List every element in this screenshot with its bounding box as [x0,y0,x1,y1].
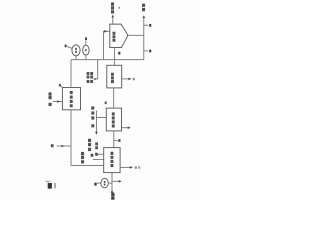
ejector E1 (left ellipse) [72,45,80,56]
wire: ejector E1 stem [75,56,77,60]
label: feed gas at bottom [111,193,114,196]
label: stream column lower-left of box3 [81,152,84,155]
numeral near left box corner [59,84,61,87]
numeral left of pump [94,183,96,186]
scrubber column box1 [107,65,122,88]
wire: vent line above flash drum [112,16,114,24]
wire: box1 right outlet [122,78,130,80]
wire: ejector E2 stem [85,55,87,60]
numeral near box2-box3 connector [118,139,120,142]
arrow: box2 outlet right [128,126,131,129]
glyph inside pump upper [104,181,106,183]
arrow: feed gas up [111,190,114,193]
absorber column box2 [106,108,121,131]
glyph inside ejector E2 [85,49,87,51]
pump P1 (circle at bottom) [101,178,108,187]
label: desorbed gas column B [90,72,93,75]
wire: flash drum bottom to scrubber top [114,48,116,66]
wire: purge arrow line at bottom right [112,180,120,182]
label: semi-lean stream beside box2 [91,106,94,109]
label: small char near middle stub [91,154,94,157]
numeral right of flash bottom line [118,52,120,55]
flash drum V1 (pentagon vessel) [110,24,128,47]
arrow: into flash left inlet [104,30,107,33]
caption: faint smear above 图1 [45,181,50,183]
wire: desorbed gas label line to header [94,60,98,80]
arrow: box3 outlet right [130,166,133,169]
label: product stream at riser top [142,4,145,7]
faint label after box3 arrow a [135,166,137,169]
label: small char near upper stub [95,153,98,156]
arrow: semi-lean down [95,132,98,135]
wire: pump discharge to feed line [108,182,112,184]
label: inside left regenerator box [70,91,73,94]
arrow: purge right bottom [119,180,122,183]
faint label after box3 arrow b [138,166,140,169]
wire: riser from left box to header [70,60,72,88]
wire: riser numeral tick upper [144,24,148,26]
glyph inside ejector E1 upper [75,48,77,50]
label: stream column upper near box3 [88,139,91,142]
wire: ejector E2 numeral lead [85,41,87,46]
caption: 图 character blob [48,183,52,189]
wire: box2 to box3 connector [113,131,115,148]
numeral above box2 [105,102,107,105]
arrow: box1 outlet right [128,78,131,81]
label: inside absorber box2 [112,112,115,115]
wire: flash drum right outlet to riser [128,34,144,36]
wire: left box numeral lead [61,86,63,88]
wire: box3 inlet stub upper [97,153,104,155]
label: lean liquid stream at left [49,92,52,95]
wire: ejector E1 numeral lead [67,47,72,49]
numeral right of riser lower [149,50,151,53]
wire: water makeup into downcomer [57,145,72,147]
label: inside absorber box3 [111,152,114,155]
numeral right of flash vent text [118,7,120,9]
wire: box3 inlet stub middle [93,158,104,160]
arrow: lean liquid into left box [57,100,60,103]
arrow: water makeup right [62,145,65,148]
label: gas stream above flash drum [111,2,114,5]
wire: feed gas line into box3 bottom [111,173,113,192]
label: inside scrubber box1 [111,73,114,76]
wire: left downcomer to bottom inlet of box3 [71,110,104,166]
wire: box2-box3 numeral tick [114,140,118,142]
wire: riser numeral tick lower [144,50,148,52]
regenerator column (left box) [62,88,80,110]
glyph inside ejector E1 lower [75,51,77,53]
wire: header line under ejectors [71,59,144,61]
caption: figure number 1 [54,183,55,188]
label: desorbed gas column A [87,72,90,75]
wire: lean liquid inlet to left box [53,101,62,103]
wire: pump suction from left [97,182,101,184]
arrow: product riser up [143,15,146,18]
ejector E2 (right ellipse) [83,45,89,55]
wire: semi-lean line into box2 [96,111,106,134]
label: water makeup char at left [51,144,54,147]
label: inside flash drum [113,32,116,35]
label: stream column right near box3 [95,142,98,145]
glyph inside pump lower [104,184,106,186]
wire: flash drum left inlet riser [104,31,110,59]
arrow: vent up at flash top [112,15,115,18]
numeral after box1 arrow [133,78,135,81]
wire: box3 right outlet [120,166,131,168]
wire: box2 right outlet [122,127,129,129]
numeral right of riser upper [149,24,151,27]
arrow: desorbed gas into riser [94,78,97,80]
wire: product riser vertical [143,17,145,60]
wire: box1 to box2 connector [113,88,115,108]
numeral near ejector E1 [65,45,67,48]
numeral above ejector E2 [85,37,87,40]
absorber column box3 [104,148,120,173]
